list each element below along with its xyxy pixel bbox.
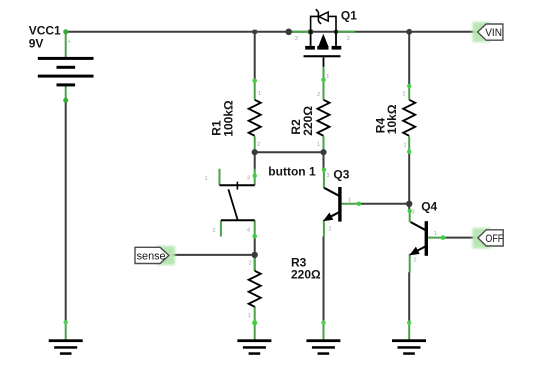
wire Q3 emitter to ground [323, 236, 325, 323]
wire battery bottom to ground [65, 100, 67, 322]
R2 and Q1 gate pin legs (green) [323, 66, 325, 151]
svg-text:10kΩ: 10kΩ [385, 104, 399, 134]
green wire-end node Q3 collector top [322, 168, 326, 172]
net flag sense [135, 247, 169, 263]
pushbutton button1 actuator [228, 189, 237, 220]
svg-text:2: 2 [213, 228, 216, 234]
svg-text:4: 4 [247, 228, 250, 234]
wire Q4 base to OFF flag [445, 237, 478, 239]
svg-text:2: 2 [329, 227, 332, 233]
pushbutton button1 tick [236, 182, 238, 190]
svg-text:1: 1 [248, 313, 251, 319]
green wire-end node R1 top [252, 79, 257, 84]
wire R2 node to Q3 collector [323, 152, 325, 170]
transistor Q4 emitter arrow [409, 247, 420, 256]
resistor R4 [403, 100, 415, 136]
transistor Q3 bar [338, 187, 341, 222]
wire Q4 node to Q4 collector [408, 204, 410, 211]
green wire-end node ground1 [63, 320, 67, 324]
svg-text:OFF: OFF [485, 233, 503, 245]
svg-text:1: 1 [205, 176, 208, 182]
junction node rail/R1 [253, 30, 257, 34]
green wire-end node Q4 base [441, 235, 446, 240]
svg-text:9V: 9V [29, 36, 44, 50]
Q3 collector and emitter pin legs (green) [323, 169, 325, 237]
wire sense flag to node [168, 254, 254, 256]
Q4 base pin leg (green) [428, 237, 446, 239]
svg-text:1: 1 [258, 91, 261, 97]
net flag sense glow [157, 246, 175, 265]
svg-text:3: 3 [412, 210, 415, 216]
svg-text:button 1: button 1 [268, 164, 316, 178]
transistor Q3 emitter arrow [323, 213, 334, 222]
wire R1 node to R2 node [255, 151, 324, 153]
MOSFET Q1 gate stem [323, 57, 325, 66]
svg-text:sense: sense [137, 250, 166, 262]
ground pin leg under battery (green) [65, 322, 67, 340]
MOSFET Q1 gate bar [304, 55, 341, 57]
battery VCC1 plates [38, 57, 94, 60]
svg-text:1: 1 [326, 74, 329, 80]
junction node sense/R3 [252, 252, 258, 258]
green wire-end node battery top [63, 29, 68, 34]
resistor R2 [318, 100, 330, 136]
pushbutton button1 top contact [220, 184, 255, 186]
net flag OFF [478, 230, 503, 246]
resistor R3 [249, 271, 261, 307]
ground under R3 [237, 339, 271, 355]
svg-text:220Ω: 220Ω [291, 267, 321, 281]
svg-text:3: 3 [295, 36, 298, 42]
MOSFET Q1 arrow [319, 34, 329, 46]
green wire-end node battery bottom [63, 98, 68, 103]
junction node Q3 base/Q4 [406, 201, 412, 207]
svg-text:2: 2 [347, 36, 350, 42]
Q1 pin end squares [308, 30, 312, 34]
green wire-end node Q3 base [357, 202, 362, 207]
green wire-end node button bottom [252, 234, 257, 239]
green wire-end node ground4 [407, 321, 411, 325]
ground under Q3 [306, 339, 340, 355]
transistor Q3 emitter stroke [329, 212, 339, 218]
Q3 base pin leg (green) [342, 203, 361, 205]
green wire-end node Q4 collector top [408, 209, 412, 213]
svg-text:3: 3 [327, 173, 330, 179]
net flag VIN [478, 24, 503, 40]
Q1 source/drain pin legs (green) [292, 31, 356, 33]
net flag VIN glow [473, 22, 491, 42]
pushbutton button1 bottom contact [221, 219, 255, 221]
wire R4 to Q4 node [408, 152, 410, 204]
svg-text:-: - [69, 91, 71, 97]
ground pin leg under Q3 (green) [323, 322, 325, 340]
svg-text:+: + [68, 40, 71, 46]
wire rail down to R1 [254, 31, 256, 82]
svg-text:2: 2 [257, 142, 260, 148]
green wire-end node ground3 [321, 320, 325, 324]
svg-text:VIN: VIN [485, 27, 502, 39]
svg-text:1: 1 [434, 231, 437, 237]
svg-text:1: 1 [404, 143, 407, 149]
MOSFET Q1 body diode [311, 16, 336, 31]
junction node R2/Q3 [320, 149, 326, 155]
wire top rail from battery to VIN [66, 31, 477, 33]
svg-text:1: 1 [348, 198, 351, 204]
wire Q4 emitter to ground [408, 272, 410, 323]
wire button to sense node [254, 235, 256, 255]
svg-text:2: 2 [414, 258, 417, 264]
svg-text:Q3: Q3 [333, 167, 349, 181]
wire rail down through R4 [408, 32, 410, 86]
green wire-end node R3/ground [252, 320, 257, 325]
junction node rail/R4 [406, 29, 412, 35]
junction node at Q1 left [285, 29, 292, 36]
green wire-end node Q1 gate/R2 [321, 78, 326, 83]
MOSFET Q1 channel bars [305, 46, 315, 50]
Q4 collector and emitter pin legs (green) [409, 211, 411, 273]
green wire-end node R4 top [407, 84, 411, 88]
svg-text:2: 2 [249, 261, 252, 267]
transistor Q4 collector stroke [411, 222, 426, 230]
svg-text:2: 2 [403, 92, 406, 98]
ground pin leg under Q4 (green) [408, 322, 410, 340]
net flag OFF glow [473, 228, 491, 249]
svg-text:220Ω: 220Ω [301, 106, 315, 136]
resistor R1 [249, 100, 261, 136]
transistor Q4 emitter stroke [415, 247, 425, 253]
transistor Q4 bar [425, 221, 428, 256]
wire R1 to button [254, 150, 256, 170]
wire node to R3 [254, 255, 256, 271]
R1 pin legs (green) [254, 81, 256, 151]
ground under Q4 [392, 339, 426, 355]
svg-text:1: 1 [317, 142, 320, 148]
MOSFET Q1 terminals [311, 32, 336, 46]
green wire-end node R4 bottom [407, 150, 411, 154]
transistor Q3 collector stroke [324, 188, 339, 196]
svg-text:100kΩ: 100kΩ [221, 100, 235, 137]
svg-text:3: 3 [247, 176, 250, 182]
button pin legs (green) [220, 169, 255, 237]
junction node R1/button [252, 149, 258, 155]
svg-text:2: 2 [317, 92, 320, 98]
battery VCC1 pin legs (green) [65, 32, 67, 101]
R4 pin legs (green) [408, 86, 410, 153]
green wire-end node button top right [253, 174, 257, 178]
wire Q3 base to Q4 node [360, 203, 409, 205]
svg-text:Q4: Q4 [421, 200, 437, 214]
R3 pin legs (green) [254, 257, 256, 323]
ground pin leg under R3 (green) [254, 323, 256, 340]
ground under battery [49, 339, 83, 355]
svg-text:Q1: Q1 [341, 8, 357, 22]
